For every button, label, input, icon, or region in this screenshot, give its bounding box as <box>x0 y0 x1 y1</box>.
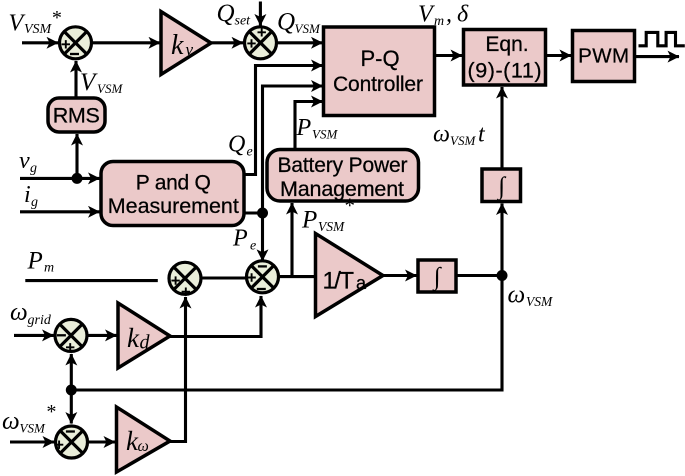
svg-text:g: g <box>31 195 38 210</box>
label Q_set <box>217 0 252 29</box>
svg-text:Battery Power: Battery Power <box>278 154 408 177</box>
wire 1/Ta to integrator <box>383 274 417 277</box>
svg-text:∫: ∫ <box>496 173 506 201</box>
summer S2 (Q summer) <box>245 27 277 59</box>
triangle gain k_v <box>161 12 211 75</box>
svg-text:VSM: VSM <box>97 81 123 96</box>
svg-text:k: k <box>171 30 184 61</box>
svg-text:,: , <box>446 2 452 28</box>
svg-text:i: i <box>24 182 31 208</box>
svg-text:Measurement: Measurement <box>108 194 239 218</box>
label Q_VSM <box>277 9 321 37</box>
svg-text:k: k <box>127 323 140 353</box>
svg-text:v: v <box>186 40 194 59</box>
node P_e junction <box>257 208 268 219</box>
node omega_VSM junction <box>497 270 508 281</box>
wire integrator to Eqn <box>500 87 503 169</box>
svg-text:set: set <box>235 14 252 29</box>
summer S4 (P_e summer) <box>247 261 279 293</box>
wire S4 to 1/Ta <box>279 275 317 278</box>
svg-text:Q: Q <box>228 132 245 158</box>
wire Q_e to controller <box>244 66 323 175</box>
wire controller to Eqn <box>435 54 463 57</box>
svg-text:e: e <box>247 145 253 160</box>
label P_e <box>232 226 256 254</box>
svg-text:P: P <box>296 115 312 141</box>
svg-text:g: g <box>30 161 37 176</box>
label Q_e <box>228 132 253 160</box>
svg-text:Eqn.: Eqn. <box>485 33 528 56</box>
svg-text:a: a <box>356 273 367 293</box>
block PWM <box>573 31 635 82</box>
label V_m delta <box>418 2 469 30</box>
wire S3 to S4 <box>202 276 247 279</box>
wire S5 to k_d <box>88 334 117 337</box>
svg-text:RMS: RMS <box>53 104 100 128</box>
triangle gain 1/Ta <box>316 234 384 317</box>
label P_VSM* <box>301 194 355 235</box>
block Battery Power Management <box>267 150 419 202</box>
svg-text:P: P <box>301 207 317 234</box>
label V_VSM* <box>9 7 62 37</box>
svg-text:∫: ∫ <box>432 264 442 292</box>
node feedback junction <box>66 385 77 396</box>
label omega_VSM t <box>433 122 486 149</box>
svg-text:δ: δ <box>457 2 469 28</box>
wire feedback down and left <box>71 276 502 391</box>
svg-text:ω: ω <box>138 438 149 455</box>
svg-text:ω: ω <box>433 122 450 148</box>
svg-text:VSM: VSM <box>312 127 338 142</box>
label v_g <box>19 148 37 176</box>
svg-text:VSM: VSM <box>318 219 345 234</box>
svg-text:*: * <box>51 7 61 29</box>
wire junction up to integrator <box>500 204 503 276</box>
wire P_m <box>25 279 158 282</box>
svg-text:d: d <box>140 332 151 354</box>
svg-text:P-Q: P-Q <box>360 46 399 71</box>
svg-text:ω: ω <box>2 408 20 435</box>
wire P_e down to S4 <box>261 213 264 261</box>
RMS block <box>48 98 105 132</box>
svg-text:v: v <box>19 148 30 174</box>
label omega_grid <box>10 299 52 328</box>
svg-text:VSM: VSM <box>526 294 553 309</box>
label P_VSM <box>296 115 339 142</box>
svg-text:*: * <box>46 401 56 423</box>
node v_g junction <box>72 173 83 184</box>
svg-text:VSM: VSM <box>20 421 46 436</box>
svg-text:Controller: Controller <box>333 73 423 96</box>
svg-text:V: V <box>9 11 26 37</box>
svg-text:P: P <box>27 248 43 275</box>
svg-text:VSM: VSM <box>24 22 53 37</box>
summer S1 (voltage error) <box>60 27 92 59</box>
triangle gain k_d <box>118 303 170 368</box>
svg-text:ω: ω <box>508 282 526 309</box>
svg-text:Q: Q <box>277 9 295 36</box>
wire k_omega to S3 <box>170 297 186 442</box>
wire omega_grid input <box>14 334 54 337</box>
summer S6 (omega summer) <box>55 426 88 458</box>
wire S6 to k_omega <box>88 440 115 443</box>
svg-text:ω: ω <box>10 299 28 326</box>
block P-Q Controller <box>324 27 435 116</box>
label omega_VSM* <box>2 401 56 436</box>
square wave symbol <box>639 32 685 45</box>
wire P_e to controller <box>244 86 323 213</box>
wire S1 to k_v <box>93 41 160 44</box>
svg-text:grid: grid <box>28 313 52 328</box>
svg-text:P and Q: P and Q <box>136 172 211 195</box>
svg-text:e: e <box>250 239 256 254</box>
block P and Q Measurement <box>101 162 244 226</box>
label V_VSM feedback <box>80 69 123 96</box>
wire PWM output <box>635 55 680 58</box>
wire input V_VSM* <box>22 41 58 44</box>
svg-text:VSM: VSM <box>295 21 321 36</box>
svg-text:Q: Q <box>217 0 235 27</box>
block integrator upper <box>482 169 521 202</box>
wire Eqn to PWM <box>546 54 572 57</box>
summer S3 (P_m summer) <box>169 262 201 296</box>
svg-text:VSM: VSM <box>450 133 476 148</box>
wire k_v to S2 <box>211 41 243 44</box>
label P_m <box>27 248 55 276</box>
wire S2 to controller <box>278 41 323 44</box>
svg-text:m: m <box>434 14 444 29</box>
wire omega_VSM* input <box>10 440 54 443</box>
wire junction up to S5 <box>70 354 73 390</box>
svg-text:V: V <box>418 2 435 28</box>
wire integrator to junction <box>456 274 502 277</box>
wire junction down to S6 <box>70 390 73 424</box>
wire i_g <box>20 210 100 213</box>
block Eqn (9)-(11) <box>464 30 546 86</box>
wire Q_set input <box>259 2 262 26</box>
svg-text:m: m <box>44 261 54 276</box>
wire junction to RMS <box>75 134 78 178</box>
svg-text:(9)-(11): (9)-(11) <box>468 59 542 83</box>
svg-text:*: * <box>344 194 355 218</box>
wire BPM to controller <box>295 102 323 150</box>
summer S5 (omega_grid summer) <box>55 319 87 351</box>
block integrator lower <box>418 260 456 292</box>
svg-text:Management: Management <box>280 177 404 201</box>
triangle gain k_omega <box>117 407 171 472</box>
wire P_VSM* up to BPM <box>290 203 293 277</box>
label i_g <box>24 182 38 210</box>
svg-text:1/T: 1/T <box>323 268 355 295</box>
wire RMS to S1 <box>74 61 77 98</box>
svg-text:P: P <box>232 226 248 252</box>
wire k_d to S4 <box>170 296 261 337</box>
wire v_g <box>20 177 100 180</box>
label omega_VSM <box>508 282 553 310</box>
svg-text:PWM: PWM <box>578 45 629 68</box>
